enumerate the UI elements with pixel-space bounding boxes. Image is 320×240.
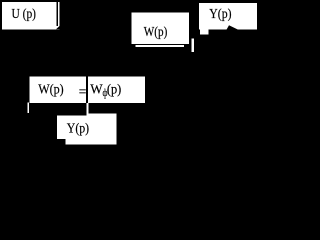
block Y(p) output [199, 3, 257, 35]
svg-text:(p): (p) [107, 82, 122, 97]
svg-text:=: = [79, 85, 87, 100]
svg-text:Y(p): Y(p) [209, 7, 231, 22]
svg-text:Y(p): Y(p) [67, 122, 90, 137]
svg-text:W(p): W(p) [144, 25, 168, 40]
separator line [86, 76, 88, 103]
svg-text:U (p): U (p) [12, 7, 37, 22]
wire left below W(p)= [27, 103, 29, 114]
svg-text:W: W [90, 82, 103, 97]
block Wphi(p) [88, 77, 145, 104]
wire below W(p) top [135, 45, 184, 47]
block W(p)= [30, 76, 87, 103]
svg-text:W(p): W(p) [38, 82, 64, 97]
block U(p) [2, 2, 60, 29]
wire right of W(p) top [192, 39, 194, 53]
block W(p) top [132, 12, 191, 43]
wire below separator [86, 103, 88, 116]
arrowhead on Y(p) [227, 25, 239, 29]
block Y(p) bottom [57, 113, 117, 144]
